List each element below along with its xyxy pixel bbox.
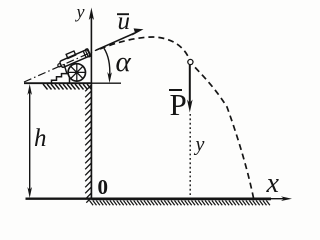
velocity vector u <box>96 28 144 50</box>
projectile point circle <box>188 59 193 64</box>
trajectory dashed curve <box>100 37 254 198</box>
svg-text:h: h <box>34 125 47 152</box>
svg-text:y: y <box>75 2 85 22</box>
h dimension line <box>27 84 32 198</box>
svg-text:0: 0 <box>98 175 109 199</box>
hatching under x-axis <box>90 201 270 206</box>
svg-text:y: y <box>194 134 205 156</box>
angle alpha arc <box>104 48 110 76</box>
cannon trail strut <box>64 64 67 74</box>
x-axis thick line <box>91 197 271 200</box>
cannon barrel <box>55 46 91 70</box>
x-axis arrow <box>271 196 292 201</box>
cannon carriage steps <box>52 74 70 84</box>
bottom ground line left <box>26 198 92 200</box>
dotted ordinate line <box>189 114 191 198</box>
svg-text:x: x <box>266 168 280 199</box>
svg-text:α: α <box>116 46 132 78</box>
angle reference line <box>91 82 121 84</box>
barrel axis dash-dot line <box>24 48 100 82</box>
y-axis <box>89 8 94 84</box>
svg-text:P: P <box>170 87 187 122</box>
svg-text:u: u <box>118 8 131 35</box>
hatching under top ground <box>43 84 92 90</box>
force vector P <box>187 65 193 113</box>
top ground line <box>24 82 91 84</box>
cliff hatching <box>85 85 91 203</box>
cannon wheel <box>68 64 85 81</box>
cliff edge wall <box>90 83 92 199</box>
